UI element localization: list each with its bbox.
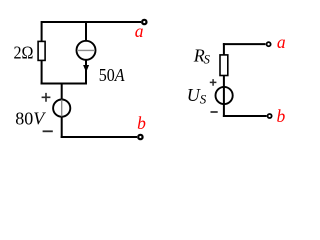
wire: left circuit top rail from left corner to terminal a [42, 21, 141, 23]
svg-text:2Ω: 2Ω [14, 42, 34, 62]
terminal a (left circuit) open circle [142, 20, 146, 24]
wire: voltage source branch stem from middle rail down [61, 83, 63, 100]
svg-text:US: US [187, 85, 207, 107]
current source I1 internal horizontal bar [77, 49, 95, 51]
wire: right vertical branch below resistor RS through voltage source US [223, 76, 225, 118]
resistor RS [220, 55, 228, 76]
wire: voltage source bottom lead [61, 116, 63, 138]
wire: current source branch bottom lead [85, 60, 87, 85]
terminal b (left circuit) open circle [138, 135, 142, 139]
wire: current source branch top lead [85, 21, 87, 41]
voltage source V1 (80V) circle [53, 100, 70, 117]
wire: left vertical branch above resistor R1 [41, 21, 43, 41]
terminal a (right circuit) open circle [267, 42, 271, 46]
svg-text:RS: RS [193, 45, 211, 66]
minus sign: polarity of US [211, 111, 218, 113]
svg-text:50A: 50A [99, 65, 125, 85]
svg-text:80V: 80V [15, 109, 46, 129]
wire: left circuit bottom rail to terminal b [61, 136, 137, 138]
svg-text:b: b [137, 113, 146, 133]
resistor R1 (2 ohm) [38, 41, 45, 60]
wire: right circuit bottom rail to terminal b [223, 115, 267, 117]
svg-text:a: a [135, 21, 144, 41]
svg-text:a: a [277, 32, 286, 52]
voltage source V1 internal vertical bar [61, 100, 63, 117]
voltage source US circle [216, 87, 233, 104]
terminal b (right circuit) open circle [268, 114, 272, 118]
current source I1 (50A) circle [77, 41, 96, 60]
plus sign: polarity of US [210, 79, 217, 86]
wire: middle horizontal rail joining branches [41, 83, 87, 85]
wire: right vertical branch above resistor RS [223, 43, 225, 55]
wire: left vertical branch below resistor R1 [41, 61, 43, 85]
arrowhead: current direction arrow pointing down [83, 65, 89, 72]
plus sign: polarity of 80V source [42, 93, 51, 102]
wire: right circuit top rail from corner to terminal a [223, 43, 266, 45]
minus sign: polarity of 80V source [43, 130, 53, 132]
svg-text:b: b [277, 106, 286, 126]
